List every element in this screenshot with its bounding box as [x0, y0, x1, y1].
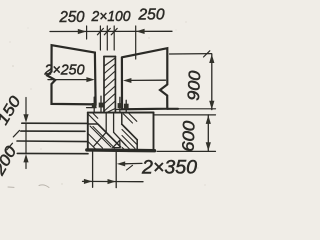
- embedded column right face: [113, 113, 115, 133]
- 900 top extension slash: [204, 51, 210, 57]
- anchor bolt R1 nut: [118, 103, 123, 108]
- 600 dimension line: [207, 115, 209, 151]
- anchor bolt L2 nut: [99, 103, 104, 108]
- block hatch right wedge: [122, 130, 137, 150]
- socket notch vertical right: [121, 113, 123, 125]
- svg-text:2×250: 2×250: [44, 62, 86, 79]
- socket sloped face left: [98, 124, 121, 147]
- faint smudge marks bottom left: [8, 185, 49, 188]
- foundation block top edge: [88, 112, 154, 114]
- foundation block bottom edge: [87, 148, 155, 152]
- block hatch right wall upper: [124, 114, 137, 124]
- top dim extension line e1: [86, 26, 88, 39]
- socket ledge left: [88, 123, 98, 125]
- anchor bolt L1 pin: [93, 97, 95, 112]
- column upper section right face: [114, 57, 116, 113]
- block hatch left wall upper: [89, 114, 98, 124]
- top dim extension line e2: [99, 26, 101, 50]
- small slash near 2x350 leader: [127, 165, 133, 170]
- bottom dim arrow 2 (points right): [108, 179, 116, 184]
- left dim arrow down to line A: [23, 114, 28, 123]
- embedded column spread diagonal left: [94, 132, 107, 146]
- bottom dim arrow 1 (points right): [84, 179, 92, 184]
- leader arrow for 2x250 (right, points left): [131, 79, 166, 81]
- left level line A: [22, 122, 88, 124]
- socket sloped face right: [122, 124, 137, 140]
- anchor bolt R2 nut: [124, 104, 129, 109]
- bottom dim extension line right: [115, 151, 117, 187]
- top dimension line: [50, 30, 172, 32]
- bottom dim extension line left: [92, 151, 94, 187]
- embedded column spread diagonal right: [114, 132, 126, 145]
- column top cap: [104, 56, 115, 58]
- top dim extension line e4: [113, 26, 115, 50]
- right roof beam outline with break zigzag on right edge: [122, 48, 167, 109]
- top dim slash at e3: [104, 28, 110, 34]
- 600 arrow up: [206, 115, 211, 124]
- foundation block right edge: [153, 113, 155, 151]
- left dim vertical middle part: [25, 123, 27, 153]
- bearing plate under right beam: [116, 109, 123, 111]
- paper background: [0, 0, 219, 195]
- block top extension line: [154, 114, 216, 116]
- anchor bolt R1 pin: [119, 97, 121, 112]
- bottom dimension line: [83, 180, 144, 182]
- socket inner vertical right: [136, 140, 138, 151]
- svg-text:600: 600: [179, 120, 198, 153]
- leader for 2x350 (points left): [125, 162, 142, 164]
- paper speckles: [9, 15, 205, 186]
- svg-text:2×350: 2×350: [141, 158, 197, 179]
- 600 arrow down: [206, 142, 211, 151]
- column upper section left face: [103, 57, 105, 113]
- top dim extension line e3: [106, 26, 108, 50]
- left level line D: [17, 152, 88, 154]
- block hatch left flank: [88, 126, 115, 149]
- slash near line C: [7, 143, 13, 150]
- svg-text:2×100: 2×100: [91, 8, 132, 25]
- 900 arrow down: [209, 101, 214, 110]
- column hatch: [104, 58, 115, 112]
- top dim arrow right (points left): [136, 29, 145, 34]
- anchor bolt L2 pin: [100, 96, 102, 112]
- 900 dimension line: [211, 54, 213, 110]
- right beam bottom extension line: [167, 108, 178, 110]
- embedded column left face: [105, 113, 107, 133]
- top dim arrow left (points right): [78, 29, 87, 34]
- 900 arrow up: [209, 54, 214, 63]
- top dim extension line e5: [135, 26, 137, 59]
- concrete mark triangle in block: [113, 140, 120, 147]
- left roof beam outline with break zigzag on left edge: [47, 45, 95, 104]
- svg-text:250: 250: [59, 9, 85, 26]
- bearing plate under left beam: [87, 107, 96, 109]
- left dim vertical upper part: [25, 98, 27, 115]
- left level line C: [17, 140, 87, 143]
- left dim arrow up to line D: [23, 154, 28, 163]
- leader arrow for 2x250 (left, points right): [48, 79, 87, 81]
- anchor bolt R2 pin: [125, 100, 127, 112]
- top dim slash at e4: [111, 28, 117, 34]
- svg-text:250: 250: [138, 7, 165, 24]
- svg-text:900: 900: [185, 69, 205, 101]
- anchor bolt L1 nut: [92, 103, 97, 108]
- left dim vertical tail: [25, 162, 27, 169]
- block bottom extension line: [157, 150, 216, 152]
- left level line B: [21, 130, 85, 132]
- top dim slash at e2: [97, 28, 103, 34]
- 900 top extension line: [170, 53, 212, 55]
- slash near line B: [13, 130, 19, 137]
- foundation block left edge: [87, 113, 89, 150]
